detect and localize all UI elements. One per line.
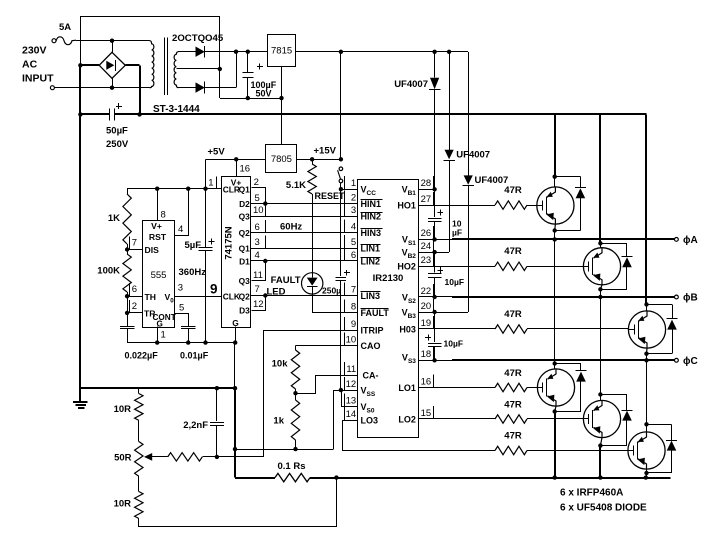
- resistor wiper series: [168, 453, 203, 461]
- transistor Q4 IRFP460 low-side A: [537, 369, 574, 406]
- svg-text:D2: D2: [239, 199, 250, 209]
- svg-text:1: 1: [161, 330, 166, 341]
- svg-text:CLK: CLK: [223, 292, 240, 302]
- switch RESET: [339, 167, 343, 171]
- wire LO1 gate: [419, 387, 495, 389]
- svg-text:ϕB: ϕB: [683, 293, 698, 304]
- svg-text:10R: 10R: [114, 404, 132, 415]
- svg-text:50V: 50V: [256, 89, 272, 99]
- svg-text:UF4007: UF4007: [475, 175, 509, 186]
- timer U4 555: [143, 221, 175, 328]
- resistor 1k: [295, 393, 297, 400]
- svg-text:FAULT: FAULT: [361, 308, 390, 318]
- svg-text:6: 6: [132, 284, 137, 295]
- svg-text:11: 11: [253, 270, 263, 281]
- svg-text:12: 12: [346, 379, 357, 390]
- node bridge AC bottom: [110, 86, 114, 90]
- node center tap: [218, 67, 222, 71]
- node DIS: [125, 247, 129, 251]
- svg-text:13: 13: [346, 395, 357, 406]
- svg-text:6 x UF5408 DIODE: 6 x UF5408 DIODE: [560, 502, 647, 513]
- regulator U2 7815: [268, 35, 296, 67]
- svg-text:0.01µF: 0.01µF: [180, 351, 209, 361]
- wire VCC pin1: [341, 189, 358, 191]
- wire VB1 pin28: [419, 189, 435, 191]
- svg-text:6: 6: [255, 222, 260, 233]
- wire secondary center tap: [176, 68, 219, 70]
- svg-text:5: 5: [255, 193, 260, 204]
- svg-text:RST: RST: [149, 232, 167, 242]
- wire rectifier return: [220, 98, 282, 100]
- node TH: [125, 294, 129, 298]
- svg-text:100K: 100K: [97, 266, 120, 277]
- svg-text:7: 7: [351, 284, 356, 295]
- resistor 100K: [123, 254, 131, 292]
- wire 7805 output +5V: [206, 159, 266, 161]
- svg-text:Q2: Q2: [239, 228, 251, 238]
- svg-text:H03: H03: [399, 324, 416, 334]
- capacitor 5uF: [205, 189, 207, 248]
- svg-text:5.1K: 5.1K: [286, 180, 306, 191]
- svg-text:60Hz: 60Hz: [280, 222, 302, 233]
- wire ITRIP sense: [264, 330, 358, 332]
- node bridge AC top: [110, 39, 114, 43]
- wire phase B to Q5 drain: [600, 297, 602, 395]
- svg-text:26: 26: [421, 228, 432, 239]
- svg-text:8: 8: [351, 302, 356, 313]
- svg-text:ϕC: ϕC: [683, 356, 698, 367]
- svg-text:V+: V+: [151, 221, 162, 231]
- svg-text:23: 23: [421, 255, 432, 266]
- wire Q2 pin7 to LIN3: [251, 295, 358, 297]
- wire 74175N pin16 riser: [236, 159, 238, 176]
- wire phase B: [419, 296, 452, 298]
- svg-text:8: 8: [161, 210, 166, 221]
- wire Q1 pin3 to LIN1: [251, 248, 358, 250]
- wire DC+ bus leg B: [599, 114, 601, 243]
- svg-text:19: 19: [421, 318, 432, 329]
- capacitor 10uF bootstrap B: [434, 252, 436, 272]
- capacitor 0.01uF: [181, 326, 196, 328]
- svg-text:2: 2: [351, 192, 356, 203]
- svg-text:LIN3: LIN3: [361, 291, 381, 301]
- svg-text:Q2: Q2: [239, 292, 251, 302]
- svg-text:1: 1: [208, 178, 213, 189]
- wire HO2 gate: [419, 266, 495, 268]
- diode UF5408 Q2: [602, 243, 627, 245]
- svg-text:D3: D3: [239, 305, 250, 315]
- svg-text:10k: 10k: [272, 359, 289, 370]
- wire +15V riser: [340, 52, 342, 160]
- wire +15V output rail: [296, 51, 468, 53]
- wire Q3 source to phase C: [646, 348, 649, 354]
- svg-text:9: 9: [210, 282, 218, 297]
- diode D3 UF4007: [468, 52, 470, 176]
- svg-text:HIN1: HIN1: [361, 199, 382, 209]
- wire HO3 gate: [419, 328, 495, 330]
- svg-text:TH: TH: [145, 292, 156, 302]
- svg-text:4: 4: [255, 250, 260, 261]
- capacitor 2,2nF: [216, 388, 218, 421]
- svg-text:LO3: LO3: [361, 415, 379, 425]
- svg-text:Q1: Q1: [239, 184, 251, 194]
- svg-text:LO1: LO1: [398, 383, 416, 393]
- ground rail: [80, 387, 235, 389]
- resistor 10R lower: [138, 476, 140, 491]
- svg-text:FAULT: FAULT: [271, 275, 301, 286]
- svg-text:6 x IRFP460A: 6 x IRFP460A: [560, 488, 623, 499]
- svg-text:360Hz: 360Hz: [179, 267, 207, 278]
- wire VS0 pin13 tie: [342, 391, 358, 407]
- svg-text:CA-: CA-: [363, 371, 379, 381]
- transistor Q1 IRFP460 high-side A: [537, 187, 574, 224]
- svg-text:14: 14: [346, 409, 357, 420]
- svg-text:IR2130: IR2130: [373, 273, 404, 284]
- wire TH-TR link: [127, 296, 129, 313]
- svg-text:47R: 47R: [504, 368, 522, 379]
- wire 555 output to CLK: [175, 296, 222, 298]
- wire phase A to Q4 drain: [554, 239, 556, 363]
- svg-text:LO2: LO2: [398, 414, 416, 424]
- svg-text:ST-3-1444: ST-3-1444: [153, 104, 200, 115]
- svg-text:INPUT: INPUT: [22, 73, 54, 85]
- svg-text:HO2: HO2: [397, 262, 416, 272]
- wire Q5 source to shunt rail: [600, 438, 602, 446]
- svg-text:10µF: 10µF: [445, 277, 465, 287]
- wire LO2 gate: [419, 418, 495, 420]
- svg-text:DIS: DIS: [145, 245, 160, 255]
- svg-text:22: 22: [421, 286, 432, 297]
- svg-text:HO1: HO1: [397, 201, 416, 211]
- transformer secondary: [174, 52, 178, 88]
- svg-text:50R: 50R: [114, 453, 132, 464]
- wire AC line bottom: [54, 87, 149, 89]
- svg-text:24: 24: [421, 241, 432, 252]
- svg-text:16: 16: [240, 164, 251, 175]
- svg-text:12: 12: [253, 299, 264, 310]
- wire VB3 pin20: [419, 312, 469, 314]
- diode D2 UF4007: [449, 52, 451, 150]
- svg-text:4: 4: [351, 222, 356, 233]
- svg-text:230V: 230V: [22, 45, 47, 57]
- wire DC+ bus leg C: [645, 114, 647, 304]
- svg-text:6: 6: [351, 250, 356, 261]
- wire Q3 pin11 feedback: [252, 261, 266, 281]
- svg-text:74175N: 74175N: [224, 226, 235, 259]
- svg-text:AC: AC: [22, 59, 38, 71]
- wire secondary top to diode: [178, 51, 196, 53]
- wire Q2 pin6 to HIN3: [251, 232, 358, 234]
- svg-text:LED: LED: [267, 287, 286, 298]
- svg-text:CAO: CAO: [361, 341, 381, 351]
- svg-text:2,2nF: 2,2nF: [183, 420, 208, 431]
- wire 555 pin1 ground: [157, 327, 159, 343]
- wire Q1 source to phase A: [554, 224, 557, 230]
- rectifier diode bottom: [196, 82, 205, 92]
- svg-text:15: 15: [421, 408, 432, 419]
- svg-text:ϕA: ϕA: [683, 235, 698, 246]
- svg-text:5A: 5A: [59, 22, 71, 33]
- svg-text:18: 18: [421, 349, 432, 360]
- wire 74175N ground pin: [235, 327, 237, 343]
- svg-text:47R: 47R: [504, 400, 522, 411]
- svg-text:µF: µF: [452, 228, 462, 238]
- wire Q2 source to phase B: [600, 285, 602, 289]
- svg-text:+5V: +5V: [208, 147, 226, 158]
- svg-text:7: 7: [255, 284, 260, 295]
- driver U1 IR2130: [358, 180, 419, 438]
- svg-text:CLR: CLR: [223, 184, 240, 194]
- capacitor 0.022uF: [127, 313, 129, 326]
- svg-text:UF4007: UF4007: [394, 79, 428, 90]
- capacitor 10uF bootstrap C: [434, 312, 436, 342]
- rectifier diode top: [196, 47, 205, 57]
- wire D2 pin5 to HIN1: [251, 203, 358, 205]
- svg-text:9: 9: [351, 319, 356, 330]
- wire Q1 pin2 feedback: [252, 188, 266, 204]
- wire bridge minus to DC- bus: [80, 64, 99, 66]
- pot wiper: [144, 453, 152, 461]
- svg-text:Q1: Q1: [239, 243, 251, 253]
- wire D3 pin12 feedback: [252, 296, 266, 311]
- svg-text:2OCTQO45: 2OCTQO45: [172, 33, 224, 44]
- counter U5 74175N: [222, 177, 251, 328]
- svg-text:G: G: [232, 318, 239, 328]
- svg-text:47R: 47R: [504, 431, 522, 442]
- wire bridge plus to cap rail: [125, 64, 139, 66]
- svg-text:10µF: 10µF: [444, 339, 464, 349]
- wire CA- to divider: [296, 376, 358, 394]
- wire CAO to divider: [296, 345, 358, 347]
- svg-text:47R: 47R: [504, 246, 522, 257]
- svg-text:7815: 7815: [271, 46, 292, 57]
- svg-text:0.1 Rs: 0.1 Rs: [278, 461, 306, 472]
- wire phase C to Q6 drain: [646, 360, 648, 424]
- svg-text:10: 10: [253, 205, 264, 216]
- wire 555 pin8: [157, 189, 159, 220]
- wire DC+ bus leg A: [554, 114, 556, 176]
- svg-text:11: 11: [346, 364, 356, 375]
- svg-text:16: 16: [421, 376, 432, 387]
- wire DC- left bus vertical: [80, 16, 82, 65]
- wire phase A: [419, 239, 452, 241]
- wire LO3 gate: [343, 421, 358, 451]
- transformer core: [164, 37, 166, 95]
- diode UF5408 Q4: [556, 363, 581, 365]
- svg-text:7: 7: [132, 238, 137, 249]
- svg-text:47R: 47R: [504, 309, 522, 320]
- diode UF5408 Q6: [647, 424, 672, 426]
- wire 7815 ground riser: [281, 66, 283, 145]
- svg-text:ITRIP: ITRIP: [361, 325, 384, 335]
- transistor Q3 IRFP460 high-side C: [628, 311, 665, 348]
- svg-text:7805: 7805: [271, 154, 292, 165]
- svg-text:+15V: +15V: [314, 146, 337, 157]
- wire 555 pin5 CONT: [175, 314, 189, 327]
- transistor Q6 IRFP460 low-side C: [628, 432, 665, 469]
- capacitor 250u: [340, 189, 342, 276]
- wire 7805 input +15V: [297, 159, 341, 161]
- wire top rail to transformer center tap: [80, 16, 219, 18]
- wire phase C: [419, 360, 452, 362]
- wire Q3 pin10 to HIN2: [251, 216, 358, 218]
- ground symbol: [79, 388, 81, 402]
- svg-text:HIN3: HIN3: [361, 228, 382, 238]
- svg-text:0.022µF: 0.022µF: [125, 351, 159, 361]
- wire source rail: [336, 477, 670, 479]
- LED FAULT: [302, 273, 323, 294]
- svg-text:5µF: 5µF: [184, 240, 201, 251]
- svg-text:2: 2: [132, 301, 137, 312]
- wire HO1 gate: [419, 205, 495, 207]
- resistor 1K: [127, 189, 129, 194]
- svg-text:5: 5: [179, 302, 184, 313]
- wire 555 pin4 reset tie: [175, 189, 189, 236]
- node divider: [293, 391, 297, 395]
- svg-text:10: 10: [346, 334, 357, 345]
- resistor 5.1K: [312, 159, 314, 164]
- svg-text:10R: 10R: [114, 499, 132, 510]
- svg-text:27: 27: [421, 194, 432, 205]
- svg-text:47R: 47R: [504, 185, 522, 196]
- svg-text:250µ: 250µ: [322, 286, 341, 296]
- svg-text:4: 4: [178, 224, 183, 235]
- wire VSS return: [235, 449, 333, 451]
- svg-text:2: 2: [254, 177, 259, 188]
- capacitor 10uF bootstrap A: [434, 189, 436, 217]
- capacitor 100uF 50V: [247, 52, 249, 73]
- AC input terminal 2: [50, 86, 54, 90]
- transformer T1 ST-3-1444 primary: [150, 41, 154, 88]
- diode UF5408 Q1: [555, 176, 580, 178]
- transistor Q2 IRFP460 high-side B: [583, 248, 620, 285]
- svg-text:555: 555: [151, 270, 167, 281]
- bridge rectifier: [99, 52, 125, 78]
- wire ground drop to shunt: [234, 343, 236, 389]
- diode UF5408 Q5: [602, 394, 627, 396]
- wire VB2 pin24: [419, 252, 450, 254]
- svg-text:28: 28: [421, 178, 432, 189]
- wire AC line top: [76, 40, 150, 42]
- wire diode outputs junction: [205, 51, 268, 53]
- resistor 10R upper: [138, 388, 140, 393]
- svg-text:Q3: Q3: [239, 276, 251, 286]
- wire secondary bottom to diode: [178, 87, 196, 89]
- resistor 0.1 Rs shunt: [235, 477, 275, 479]
- regulator U3 7805: [266, 145, 297, 173]
- svg-text:Q3: Q3: [239, 211, 251, 221]
- diode UF5408 Q3: [647, 304, 672, 306]
- svg-text:5: 5: [351, 237, 356, 248]
- svg-text:3: 3: [351, 205, 356, 216]
- svg-text:1k: 1k: [273, 416, 284, 427]
- potentiometer 50R: [135, 442, 143, 477]
- svg-text:20: 20: [421, 301, 432, 312]
- node TR: [125, 311, 129, 315]
- svg-text:1: 1: [351, 178, 356, 189]
- diode D1 UF4007: [434, 52, 436, 78]
- svg-text:1K: 1K: [108, 213, 120, 224]
- capacitor 50uF 250V: [80, 113, 109, 115]
- svg-text:UF4007: UF4007: [456, 150, 490, 161]
- svg-text:3: 3: [178, 283, 183, 294]
- wire Q6 source to rail: [646, 469, 648, 478]
- wire logic ground bus: [127, 342, 235, 344]
- svg-text:3: 3: [255, 237, 260, 248]
- wire DC+ thick rail: [115, 113, 647, 115]
- svg-text:250V: 250V: [106, 139, 129, 150]
- wire Q4 source to shunt rail: [555, 406, 556, 411]
- transistor Q5 IRFP460 low-side B: [583, 400, 620, 437]
- wire +5V distribution: [127, 188, 222, 190]
- svg-text:D1: D1: [239, 256, 250, 266]
- svg-text:50µF: 50µF: [106, 126, 128, 137]
- wire D1 pin4 to LIN2: [251, 260, 358, 262]
- resistor 10k: [291, 350, 299, 389]
